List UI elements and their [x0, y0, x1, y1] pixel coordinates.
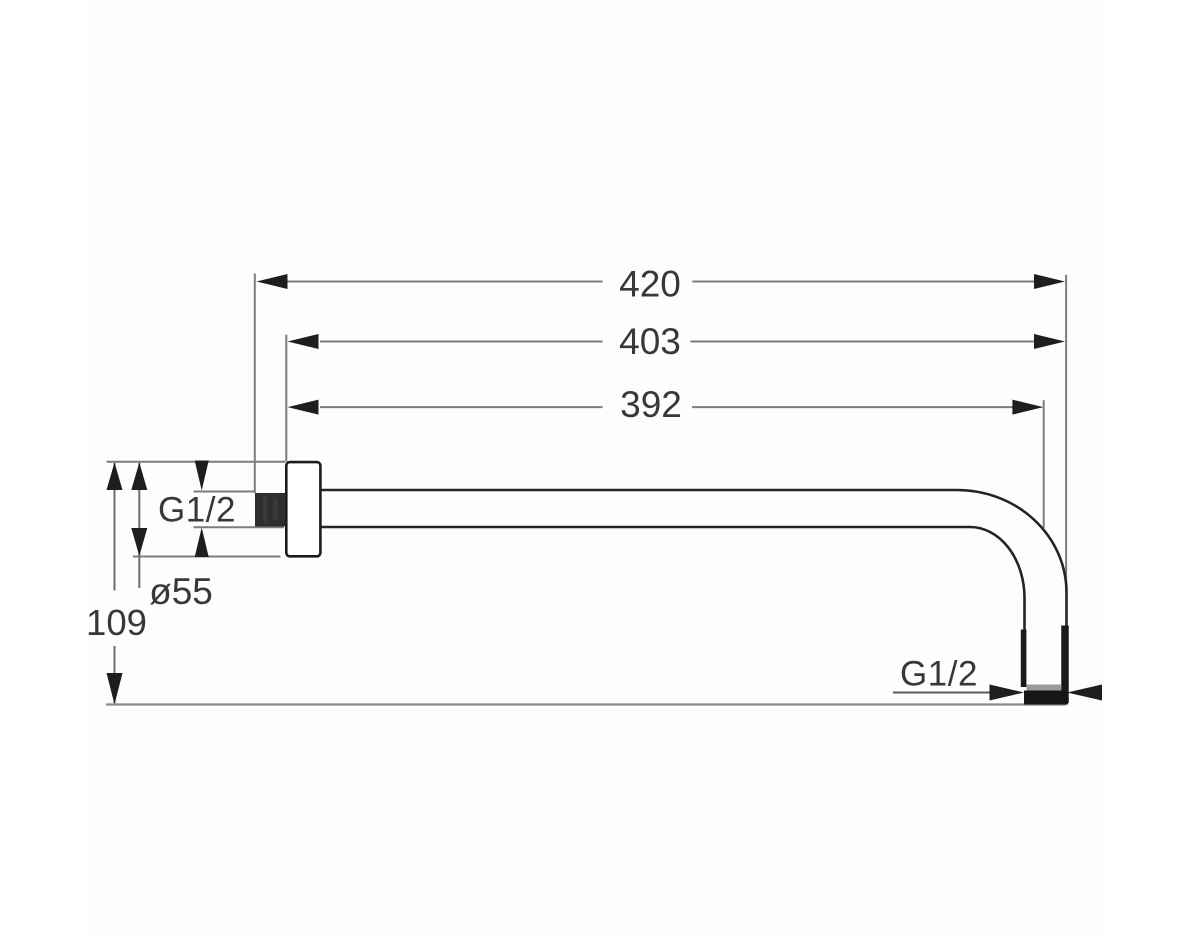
shower arm tube outer line — [322, 490, 1067, 627]
wall nipple thread — [255, 493, 285, 527]
leader line G1/2 outlet — [893, 692, 990, 694]
shower arm tube inner line — [322, 527, 1025, 631]
tube thread section left edge — [1021, 630, 1027, 688]
baseline 109 bottom line — [106, 703, 1066, 705]
svg-text:G1/2: G1/2 — [900, 655, 978, 694]
dimension 420 — [255, 274, 1035, 494]
svg-text:G1/2: G1/2 — [158, 491, 236, 530]
dimension diameter 55 — [138, 463, 140, 588]
extension line flange top — [107, 461, 286, 463]
wall flange — [286, 462, 320, 556]
arrow G1/2 outlet left — [990, 685, 1025, 701]
dimension G1/2 wall thread arrows — [195, 461, 209, 558]
dimension 403 — [286, 335, 1035, 462]
dimension 392 — [320, 400, 1044, 528]
leader lines G1/2 wall thread — [194, 491, 256, 493]
svg-text:392: 392 — [620, 384, 682, 425]
outlet gray collar — [1027, 685, 1062, 691]
arrow G1/2 outlet right — [1067, 685, 1102, 701]
svg-text:420: 420 — [619, 264, 681, 305]
tube thread section right edge — [1061, 626, 1069, 704]
svg-text:109: 109 — [86, 602, 147, 643]
outlet nut — [1024, 691, 1068, 705]
extension line right — [1065, 275, 1067, 592]
dimension 109 — [114, 463, 116, 703]
extension line flange bottom — [133, 556, 281, 558]
svg-text:403: 403 — [619, 321, 681, 362]
svg-text:ø55: ø55 — [149, 571, 213, 612]
